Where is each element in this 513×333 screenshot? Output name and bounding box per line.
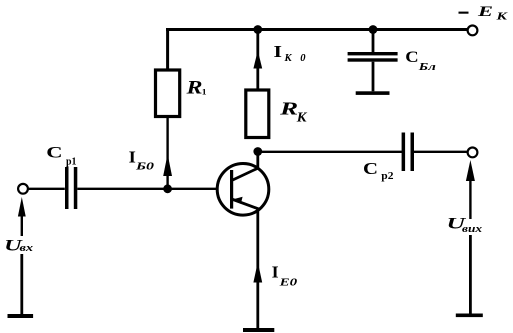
- capacitor CБл: [348, 52, 398, 55]
- arrow current IЕ0: [253, 262, 262, 283]
- svg-text:К: К: [495, 11, 509, 22]
- node rail-CБл junction: [369, 25, 378, 34]
- wire CБл to ground bar: [372, 62, 375, 92]
- arrow current IК0: [253, 51, 262, 69]
- svg-text:Бл: Бл: [417, 61, 436, 73]
- node rail-RK junction: [253, 25, 262, 34]
- wire top supply rail: [166, 28, 467, 31]
- ground CБл: [356, 91, 390, 95]
- svg-text:К: К: [296, 109, 308, 124]
- wire R1 top lead to rail corner: [166, 28, 169, 70]
- svg-text:I: I: [274, 42, 283, 61]
- svg-text:Е0: Е0: [278, 277, 298, 289]
- transistor base bar: [230, 170, 233, 209]
- svg-text:К 0: К 0: [284, 53, 307, 64]
- transistor emitter arrow (PNP): [233, 197, 243, 204]
- wire rail to RK top: [256, 30, 259, 91]
- svg-text:Б0: Б0: [135, 161, 155, 173]
- wire Cp2 to output terminal: [414, 151, 468, 153]
- terminal supply EК: [468, 26, 478, 36]
- svg-text:C: C: [405, 49, 418, 66]
- svg-text:p1: p1: [66, 156, 77, 167]
- svg-text:1: 1: [202, 87, 207, 97]
- capacitor Cp1: [65, 167, 69, 209]
- svg-text:R: R: [185, 78, 202, 99]
- arrow current IБ0: [163, 154, 172, 176]
- arrow voltage Uвх: [18, 197, 26, 217]
- svg-text:R: R: [279, 99, 298, 119]
- svg-text:C: C: [46, 145, 62, 162]
- resistor R1: [156, 70, 180, 117]
- transistor emitter lead: [232, 199, 258, 330]
- terminal output: [468, 148, 478, 158]
- wire input terminal to Cp1: [28, 188, 65, 190]
- ground emitter bar: [243, 328, 274, 332]
- wire collector junction to Cp2: [258, 151, 403, 153]
- wire Cp1 to base junction and transistor base: [77, 188, 217, 190]
- label -EК: [459, 12, 469, 14]
- svg-text:вх: вх: [20, 243, 34, 254]
- transistor VT1 body: [217, 164, 269, 216]
- transistor collector lead: [232, 151, 258, 181]
- capacitor Cp2: [402, 133, 406, 172]
- ground input bar: [8, 314, 34, 318]
- svg-text:I: I: [272, 262, 279, 281]
- svg-text:p2: p2: [381, 171, 393, 182]
- wire rail to CБл: [372, 30, 375, 53]
- resistor RK: [246, 90, 269, 138]
- wire R1 bottom lead to base node: [166, 117, 168, 190]
- node collector junction: [253, 147, 262, 156]
- svg-text:I: I: [129, 147, 136, 166]
- terminal input: [18, 184, 28, 194]
- arrow voltage Uвих: [466, 160, 475, 181]
- svg-text:E: E: [476, 4, 493, 20]
- svg-text:вих: вих: [462, 224, 482, 235]
- ground output bar: [456, 314, 483, 318]
- svg-text:C: C: [363, 159, 378, 178]
- node base junction: [163, 184, 172, 193]
